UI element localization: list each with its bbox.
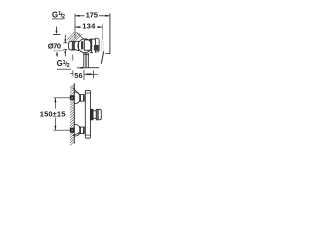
dim 134: [75, 24, 103, 40]
cartridge dome: [78, 39, 92, 53]
dim 150+-15: [54, 98, 75, 130]
wall: [105, 13, 110, 54]
shading blob under escutcheon: [94, 45, 99, 51]
D70 underline + leader arrow: [54, 50, 65, 52]
strut below bottom union: [73, 133, 80, 136]
union top: [75, 92, 81, 104]
lever cone: [74, 41, 78, 51]
neck end cap: [78, 41, 80, 51]
union bottom: [75, 124, 81, 136]
mixer body (vertical slab): [85, 90, 90, 138]
wall hatch (dense, crossing): [70, 84, 75, 145]
diagonal strut above top union: [73, 88, 79, 94]
svg-text:150±15: 150±15: [40, 109, 66, 118]
svg-text:Ø70: Ø70: [48, 42, 61, 51]
raised lever (thin hatched): [67, 32, 84, 41]
svg-text:56: 56: [74, 71, 82, 80]
escutcheon: [95, 38, 99, 52]
handle assembly (pointing right): [90, 109, 101, 120]
leader G1/2 bottom: [72, 55, 74, 61]
body: [90, 38, 96, 53]
outlet pipe (3 verticals + shoulder): [83, 53, 89, 67]
leader below G1/2 top: [53, 27, 60, 35]
elbow line with left arrow: [77, 67, 99, 69]
wall: [73, 83, 75, 143]
dim 56: [70, 70, 98, 80]
svg-text:175: 175: [86, 10, 99, 19]
wall hatch: [101, 51, 103, 64]
dim 175: [75, 14, 110, 38]
handle knob: [69, 41, 75, 50]
dim D70 (vertical, arrows outside pointing in): [63, 35, 67, 57]
svg-text:134: 134: [82, 22, 96, 31]
